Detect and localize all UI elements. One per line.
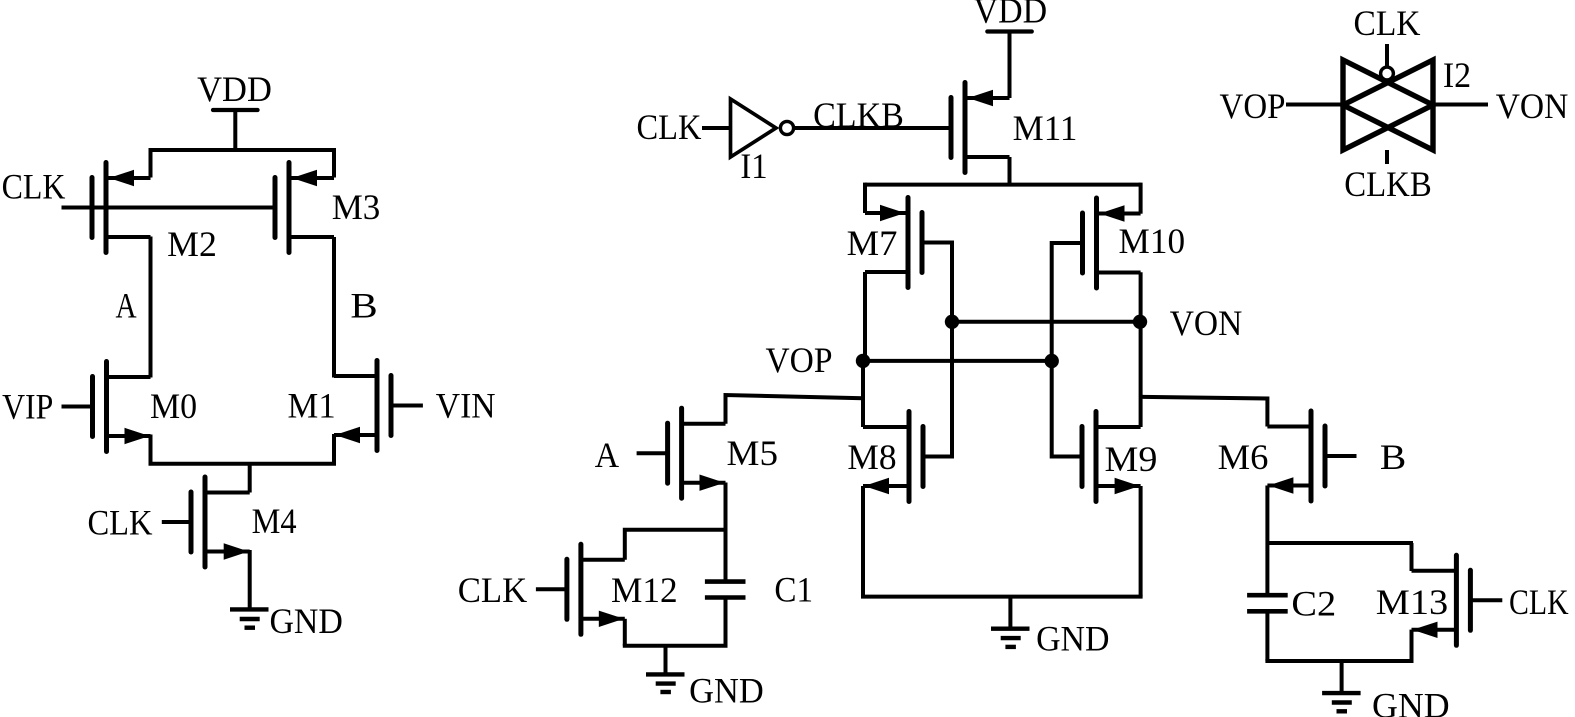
- wire VON to M8 gate: [923, 322, 952, 457]
- wire M10 gate to VOP: [1052, 243, 1082, 361]
- svg-text:M6: M6: [1218, 437, 1269, 477]
- wire C1 bottom down: [724, 598, 728, 646]
- svg-text:M12: M12: [611, 570, 678, 610]
- wire C2 bottom down: [1265, 611, 1269, 661]
- wire M6 source down: [1265, 486, 1269, 596]
- wire latch top rail: [865, 183, 1141, 187]
- wire transmission gate to VON: [1433, 103, 1488, 107]
- wire CLK to inverter: [702, 126, 729, 130]
- ground GND (bottom right): [1322, 661, 1450, 717]
- transistor M11: [951, 83, 1077, 173]
- svg-text:A: A: [595, 435, 619, 475]
- svg-text:I2: I2: [1443, 55, 1471, 95]
- wire C2/M13 bottom rail: [1265, 659, 1413, 663]
- svg-text:VOP: VOP: [1220, 86, 1286, 126]
- transistor M0: [62, 362, 198, 452]
- svg-text:M5: M5: [727, 433, 779, 473]
- transistor M4: [162, 477, 297, 567]
- wire VDD to M11 source: [1008, 32, 1012, 99]
- wire M13 source down: [1410, 630, 1414, 661]
- wire rail to M7 source: [863, 183, 867, 213]
- svg-text:M1: M1: [288, 386, 336, 426]
- svg-text:CLK: CLK: [637, 107, 702, 147]
- wire VOP to M9 gate: [1052, 361, 1082, 457]
- wire VON branch to M6 drain: [1141, 397, 1268, 427]
- transistor M1: [288, 361, 423, 451]
- wire latch bottom rail: [861, 595, 1143, 599]
- svg-text:GND: GND: [689, 671, 764, 711]
- wire VON down to M9 drain: [1139, 322, 1143, 427]
- svg-text:GND: GND: [1372, 685, 1450, 717]
- wire CLKB below transmission gate: [1385, 150, 1389, 164]
- net VOP line: [863, 359, 1052, 363]
- ground GND (middle): [991, 597, 1110, 659]
- ground GND (left): [230, 550, 343, 641]
- svg-text:VIP: VIP: [2, 387, 53, 427]
- svg-text:M2: M2: [167, 224, 217, 264]
- svg-text:VOP: VOP: [766, 340, 833, 380]
- net VON line: [952, 320, 1140, 324]
- svg-text:VDD: VDD: [974, 0, 1048, 31]
- wire M11 drain down: [1008, 157, 1012, 185]
- wire node A: [149, 237, 153, 378]
- junction VON left: [945, 315, 959, 329]
- svg-text:B: B: [350, 285, 377, 325]
- svg-text:C1: C1: [774, 570, 813, 610]
- wire M12 drain to M5 source: [625, 530, 726, 560]
- transistor M8: [847, 412, 923, 502]
- svg-text:I1: I1: [740, 146, 767, 186]
- capacitor C1: [705, 570, 813, 610]
- wire M5 drain to VOP: [726, 395, 864, 424]
- svg-text:M0: M0: [150, 386, 197, 426]
- svg-text:VON: VON: [1496, 86, 1569, 126]
- wire VOP to transmission gate: [1286, 103, 1343, 107]
- transistor M13: [1376, 555, 1503, 645]
- ground GND (bottom left): [646, 646, 764, 711]
- wire VOP down to M8 drain: [861, 361, 865, 427]
- transistor M6: [1218, 411, 1357, 501]
- svg-text:GND: GND: [269, 601, 343, 641]
- wire CLK to M2/M3 gates: [62, 206, 275, 210]
- svg-text:M11: M11: [1013, 108, 1078, 148]
- wire M12/C1 bottom rail: [623, 644, 728, 648]
- wire M1 source down: [332, 434, 336, 464]
- wire tail rail: [149, 462, 337, 466]
- svg-text:M10: M10: [1119, 221, 1186, 261]
- wire M8 source down: [861, 486, 865, 597]
- svg-text:VDD: VDD: [197, 69, 272, 109]
- svg-text:M13: M13: [1376, 582, 1448, 622]
- transistor M5: [637, 408, 778, 498]
- transistor M2: [92, 163, 217, 265]
- wire M5 source down to C1: [724, 483, 728, 582]
- svg-text:CLK: CLK: [87, 503, 152, 543]
- svg-text:C2: C2: [1291, 583, 1336, 623]
- svg-text:CLK: CLK: [2, 167, 66, 207]
- wire CLK to bubble: [1385, 44, 1389, 68]
- capacitor C2: [1247, 583, 1336, 623]
- wire M2 source to rail: [149, 148, 153, 178]
- svg-text:M9: M9: [1105, 439, 1158, 479]
- wire CLKB to M11 gate: [794, 126, 951, 130]
- transistor M9: [1082, 412, 1157, 502]
- transistor M12: [536, 544, 678, 634]
- svg-text:GND: GND: [1036, 618, 1109, 658]
- junction VOP right: [1045, 354, 1059, 368]
- junction VOP left: [856, 354, 870, 368]
- svg-text:B: B: [1380, 437, 1406, 477]
- wire M10 drain to VON: [1139, 272, 1143, 322]
- transistor M10: [1083, 198, 1186, 288]
- svg-text:CLK: CLK: [1509, 582, 1569, 622]
- svg-text:M3: M3: [332, 187, 381, 227]
- power VDD (left): [197, 69, 272, 150]
- svg-text:CLK: CLK: [1354, 3, 1421, 43]
- wire VDD rail (left): [151, 148, 335, 152]
- svg-text:VIN: VIN: [436, 386, 496, 426]
- svg-text:M4: M4: [252, 501, 297, 541]
- wire C2/M13 top link: [1267, 541, 1413, 545]
- wire M12 source down: [623, 619, 627, 646]
- svg-text:M7: M7: [847, 223, 898, 263]
- svg-text:VON: VON: [1170, 303, 1243, 343]
- junction VON right: [1133, 315, 1147, 329]
- inverter I1: [731, 99, 794, 186]
- wire tail to M4 drain: [248, 464, 252, 493]
- transmission gate I2: [1343, 55, 1471, 150]
- svg-text:M8: M8: [847, 437, 896, 477]
- transistor M3: [275, 163, 380, 253]
- wire M7 drain to VOP: [863, 272, 867, 361]
- wire M7 gate to VON: [922, 243, 952, 322]
- wire M9 source down: [1139, 486, 1143, 597]
- svg-text:CLKB: CLKB: [1344, 164, 1432, 204]
- svg-text:CLK: CLK: [458, 570, 528, 610]
- wire node B: [332, 237, 336, 378]
- wire M3 source to rail: [332, 148, 336, 178]
- svg-text:A: A: [116, 285, 137, 325]
- wire rail to M10 source: [1139, 183, 1143, 214]
- wire M0 source down: [149, 435, 153, 464]
- power VDD (middle): [974, 0, 1048, 32]
- wire M13 drain up: [1410, 543, 1414, 571]
- transistor M7: [847, 198, 922, 288]
